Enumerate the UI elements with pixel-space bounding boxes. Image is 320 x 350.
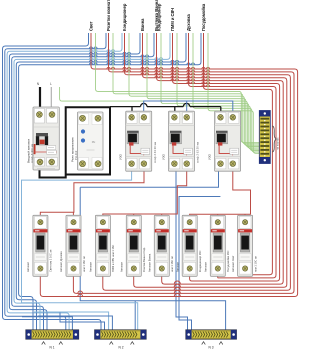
svg-text:УЗО: УЗО: [161, 153, 165, 160]
net label circuit 5 second line: [156, 3, 161, 31]
N1 strip annotation: [42, 342, 63, 350]
wire N circuit 8 (blue, via left bundle): [19, 33, 201, 330]
svg-text:Автомат: Автомат: [175, 261, 179, 272]
net label circuit 2: Розетки комнат: [106, 0, 111, 31]
label breaker SF8: [231, 255, 258, 272]
label breaker SF5: [148, 253, 175, 272]
svg-text:РН: РН: [92, 140, 96, 144]
svg-text:Розетки Ванна Стир.: Розетки Ванна Стир.: [142, 247, 146, 272]
wire PE input (green to PE bus): [60, 87, 260, 148]
net label circuit 3: Кондиционер: [122, 3, 127, 31]
wire L RCD QD3 out to breakers group 3: [190, 171, 251, 215]
svg-text:Автомат: Автомат: [120, 261, 124, 272]
wire N circuit 2 (blue, via left bundle): [5, 33, 106, 330]
wire L circuit 8 (red return, right edge loop): [204, 33, 273, 276]
label breaker SF7: [204, 250, 231, 272]
main breaker QF1 (2-pole input): [33, 107, 59, 170]
wire L RCD QD1 out to breakers group 1: [40, 171, 144, 215]
net label circuit 6: ПММ и СВЧ: [170, 8, 175, 31]
breaker SF4 (1-pole): [126, 215, 141, 276]
svg-text:Посудомойка: Посудомойка: [201, 3, 206, 31]
wire PE circuit 2 (green to PE bus): [113, 33, 259, 144]
PE bus terminal block: [259, 111, 270, 164]
N2 strip annotation: [110, 342, 135, 350]
label breaker SF3: [89, 245, 116, 272]
wire N circuit 5 (blue, via left bundle): [12, 33, 154, 330]
svg-text:Кондиционер: Кондиционер: [156, 3, 161, 31]
svg-text:соsф 2 63 30 ма: соsф 2 63 30 ма: [153, 142, 157, 163]
wire hop bumps (red over blue risers): [78, 281, 181, 296]
N2 terminal strip: [95, 330, 147, 339]
svg-text:Свет: Свет: [88, 21, 93, 31]
svg-text:на корпус: на корпус: [276, 137, 280, 150]
svg-text:соsф Д 300 ма: соsф Д 300 ма: [30, 144, 34, 163]
breaker SF7 (1-pole): [210, 215, 225, 276]
wire L circuit 2 (red return, right edge loop): [73, 33, 294, 293]
svg-text:Свет ном 1 10С ап: Свет ном 1 10С ап: [49, 249, 53, 272]
label breaker SF2: [59, 251, 86, 272]
wire PE circuit 6 (green to PE bus): [177, 33, 259, 151]
svg-text:УЗО: УЗО: [119, 153, 123, 160]
RCD QD2 (2-pole): [169, 111, 195, 171]
wire N spurs into N2 staircase: [34, 301, 135, 330]
svg-text:Посудомойка 16С: Посудомойка 16С: [226, 250, 230, 272]
RCD QD1 (2-pole): [126, 111, 152, 171]
svg-text:Автомат: Автомат: [204, 261, 208, 272]
wire L RCD QD2 out to breakers group 2: [103, 171, 187, 215]
wire N from RCD QD1 to left bundle, down to N2: [22, 171, 138, 330]
breaker SF3 (1-pole): [95, 215, 110, 276]
svg-text:Розетки комнат: Розетки комнат: [106, 0, 111, 31]
wire input N (black) to main breaker: [37, 82, 40, 107]
net label circuit 1: Свет: [88, 21, 93, 31]
breaker SF8 (1-pole): [238, 215, 253, 276]
net label circuit 4: Ванна: [140, 18, 145, 31]
wire N riser x80 down to N3 strip: [80, 187, 225, 330]
wire L circuit 5 (red return, right edge loop): [157, 33, 284, 284]
svg-text:N 2: N 2: [119, 346, 124, 350]
wire N spur into N1: [22, 317, 72, 330]
svg-text:N 1: N 1: [50, 346, 55, 350]
svg-text:Ванна: Ванна: [140, 18, 145, 31]
svg-text:Автомат Ванна: Автомат Ванна: [148, 253, 152, 272]
breaker SF1 (1-pole): [33, 215, 48, 276]
svg-text:РН-113: РН-113: [74, 150, 78, 160]
wire N circuit 7 (blue, via left bundle): [16, 33, 186, 330]
net label circuit 5: Вытяжка Ванна: [154, 0, 159, 31]
PE bus brace annotation: [272, 126, 279, 152]
svg-text:соsф 2 63 30 ма: соsф 2 63 30 ма: [196, 142, 200, 163]
label RCD QD3: [207, 153, 211, 160]
wire L circuit 7 (red return, right edge loop): [189, 33, 277, 278]
svg-text:Автомат: Автомат: [26, 261, 30, 272]
wire N circuit 3 (blue, via left bundle): [7, 33, 122, 330]
wire N circuit 4 (blue, via left bundle): [9, 33, 140, 330]
svg-text:N 3: N 3: [209, 346, 214, 350]
svg-text:ном 1 10С ап: ном 1 10С ап: [253, 256, 257, 272]
label breaker SF4: [120, 247, 147, 272]
svg-text:L: L: [50, 82, 52, 86]
breaker SF6 (1-pole): [182, 215, 197, 276]
wire PE circuit 4 (green to PE bus): [147, 33, 259, 147]
wire L circuit 6 (red return, right edge loop): [173, 33, 280, 281]
svg-text:Кондиционер: Кондиционер: [122, 3, 127, 31]
net label circuit 7: Духовка: [186, 13, 191, 31]
net label circuit 8: Посудомойка: [201, 3, 206, 31]
RCD QD3 (2-pole): [215, 111, 241, 171]
breaker SF5 (1-pole): [154, 215, 169, 276]
wire N feed to RCD tops (blue): [144, 101, 233, 114]
wire N horizontal link y187: [80, 171, 218, 187]
svg-text:Кондиционер 16С: Кондиционер 16С: [198, 250, 202, 272]
wire L feed to RCD tops (black) with hops: [110, 103, 221, 114]
N3 strip annotation: [202, 342, 223, 350]
wire PE circuit 1 (green to PE bus): [96, 33, 260, 143]
wire L main breaker out, loop around relay PH-113: [40, 107, 111, 177]
label voltage relay: [71, 137, 78, 162]
wire PE circuit 7 (green to PE bus): [193, 33, 259, 152]
svg-text:Духовка: Духовка: [186, 13, 191, 31]
svg-text:ПММ и СВЧ: ПММ и СВЧ: [170, 8, 175, 31]
wire L circuit 4 (red return, right edge loop): [134, 33, 287, 287]
N1 terminal strip: [26, 330, 79, 339]
svg-text:ПММ и СВЧ ном 1 16С: ПММ и СВЧ ном 1 16С: [111, 245, 115, 272]
wire PE circuit 3 (green to PE bus): [129, 33, 259, 145]
label breaker SF1: [26, 249, 53, 272]
N3 terminal strip: [186, 330, 237, 339]
svg-text:Автомат Свет: Автомат Свет: [231, 255, 235, 272]
svg-text:УЗО: УЗО: [207, 153, 211, 160]
svg-text:Автомат: Автомат: [89, 261, 93, 272]
wire PE circuit 8 (green to PE bus): [208, 33, 259, 153]
wire N circuit 1 (blue, via left bundle): [3, 33, 102, 330]
breaker SF2 (1-pole): [66, 215, 81, 276]
label main breaker: [27, 138, 34, 163]
svg-text:ном 1 16С ап: ном 1 16С ап: [170, 256, 174, 272]
label RCD QD2: [161, 142, 199, 163]
wire N from RCD QD2/QD3 down to N3: [176, 171, 220, 330]
wire N circuit 6 (blue, via left bundle): [14, 33, 170, 330]
wire L circuit 3 (red return, right edge loop): [103, 33, 291, 290]
wire L circuit 1 (red return, right edge loop): [40, 33, 297, 297]
voltage relay U1 PH-113: [78, 112, 104, 170]
wire input L (grey) to main breaker: [50, 82, 52, 107]
svg-text:ном 1 16С ап: ном 1 16С ап: [82, 256, 86, 272]
label RCD QD1: [119, 142, 157, 163]
label breaker SF6: [175, 250, 202, 272]
wire PE circuit 5 (green to PE bus): [161, 33, 259, 149]
svg-text:Автомат Духовка: Автомат Духовка: [59, 251, 63, 272]
